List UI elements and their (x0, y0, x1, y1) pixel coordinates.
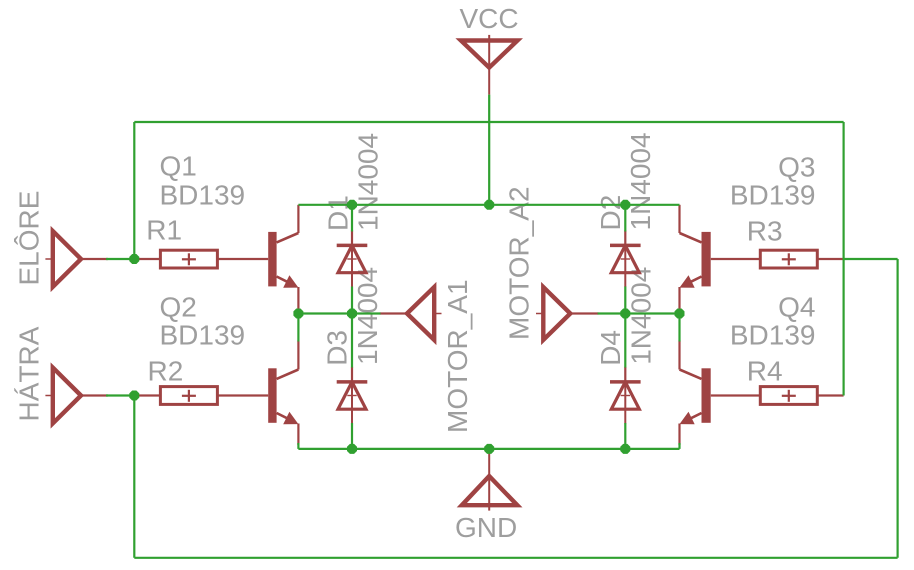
junction D2 VCC rail (620, 200, 630, 210)
resistor R1 (134, 250, 268, 268)
wire VCC collector rail (298, 204, 679, 206)
wire D3 bottom lead (351, 423, 353, 449)
wire VCC stem (488, 95, 490, 205)
svg-text:R1: R1 (146, 215, 182, 246)
wire motor rail left MOTOR_A1 net (298, 312, 380, 314)
svg-text:R4: R4 (747, 356, 783, 387)
junction Q1 emitter MOTOR_A1 (293, 309, 303, 319)
junction VCC stem (484, 200, 494, 210)
svg-text:R3: R3 (747, 216, 783, 247)
wire HÁTRA pin to junction (106, 394, 134, 396)
diode D2 (610, 230, 641, 287)
wire D4 top lead (624, 314, 626, 368)
ground symbol GND (462, 449, 518, 511)
wire D1 top lead (351, 205, 353, 232)
resistor R4 (711, 387, 844, 405)
resistor R2 (134, 387, 268, 405)
connector ELÔRE (45, 231, 108, 287)
junction D3 GND rail (347, 444, 357, 454)
junction D4 GND rail (620, 444, 630, 454)
wire left vertical HÁTRA net down (133, 396, 135, 558)
junction Q3 emitter MOTOR_A2 (675, 309, 685, 319)
svg-text:BD139: BD139 (160, 179, 246, 210)
junction D1 D3 MOTOR_A1 (347, 309, 357, 319)
wire top rail ELÔRE net (134, 121, 843, 123)
svg-text:D4: D4 (595, 330, 626, 366)
svg-text:HÁTRA: HÁTRA (13, 326, 44, 421)
wire Q2 emitter to GND rail (297, 443, 299, 449)
transistor Q4 (680, 341, 711, 446)
wire R3 to right vertical (844, 258, 898, 260)
wire D2 bottom lead (624, 287, 626, 314)
svg-text:D1: D1 (323, 195, 354, 231)
diode D4 (610, 367, 641, 424)
wire right vertical HÁTRA net up (896, 259, 898, 558)
svg-text:1N4004: 1N4004 (353, 133, 384, 231)
wire bottom rail HÁTRA net (134, 557, 897, 559)
junction D2 D4 MOTOR_A2 (620, 309, 630, 319)
svg-text:D3: D3 (321, 330, 352, 366)
junction D1 VCC rail (347, 200, 357, 210)
svg-text:Q3: Q3 (778, 151, 815, 182)
wire D4 bottom lead (624, 423, 626, 449)
wire D3 top lead (351, 314, 353, 368)
junction HÁTRA R2 (129, 391, 139, 401)
wire motor rail right MOTOR_A2 net (598, 312, 680, 314)
wire Q4 emitter to GND rail (678, 443, 680, 449)
wire D2 top lead (624, 205, 626, 232)
transistor Q1 (268, 205, 298, 314)
svg-text:R2: R2 (148, 356, 184, 387)
svg-text:Q1: Q1 (160, 151, 197, 182)
wire D1 bottom lead (351, 287, 353, 314)
resistor R3 (711, 250, 844, 268)
wire right vertical ELÔRE net to R4 (842, 122, 844, 396)
connector MOTOR_A1 (380, 287, 442, 340)
svg-text:Q2: Q2 (160, 292, 197, 323)
svg-text:D2: D2 (595, 195, 626, 231)
wire Q4 collector stub (678, 314, 680, 342)
svg-text:BD139: BD139 (730, 320, 816, 351)
connector MOTOR_A2 (536, 287, 598, 340)
wire Q2 collector stub (297, 314, 299, 342)
wire GND rail (298, 448, 679, 450)
wire left vertical to ELÔRE junction (133, 122, 135, 259)
diode D1 (337, 230, 368, 287)
wire ELÔRE pin to junction (106, 258, 134, 260)
connector HÁTRA (45, 368, 108, 424)
svg-text:GND: GND (455, 512, 517, 543)
transistor Q3 (680, 205, 711, 314)
svg-text:1N4004: 1N4004 (625, 132, 656, 230)
svg-text:BD139: BD139 (160, 320, 246, 351)
transistor Q2 (268, 341, 298, 446)
svg-text:MOTOR_A2: MOTOR_A2 (504, 186, 535, 340)
junction GND stem (484, 444, 494, 454)
svg-text:1N4004: 1N4004 (352, 267, 383, 365)
supply symbol VCC (461, 35, 518, 95)
junction ELÔRE R1 (129, 254, 139, 264)
diode D3 (337, 367, 368, 424)
svg-text:VCC: VCC (460, 3, 519, 34)
svg-text:BD139: BD139 (730, 179, 816, 210)
svg-text:Q4: Q4 (778, 292, 815, 323)
svg-text:MOTOR_A1: MOTOR_A1 (442, 279, 473, 433)
svg-text:ELÔRE: ELÔRE (13, 191, 44, 286)
